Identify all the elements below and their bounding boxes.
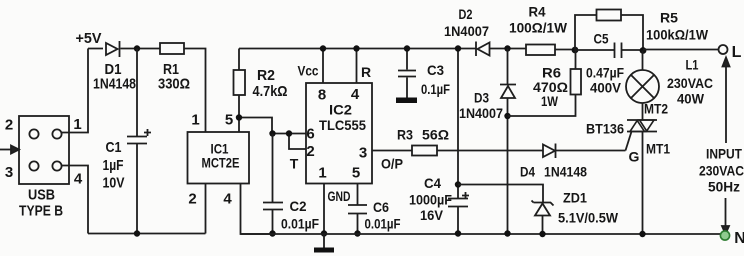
wire IC1 pin4 to ground rail [241,184,273,235]
node C6 ground [354,230,360,236]
triac BT136 [627,120,657,132]
svg-text:4: 4 [351,86,360,103]
svg-text:10V: 10V [103,175,125,192]
svg-text:C3: C3 [427,62,444,78]
wire left ground rail [88,233,206,235]
svg-text:5: 5 [225,112,233,129]
wire R2 bottom to IC1 pin5 and pins 6-2 [239,95,272,134]
svg-text:BT136: BT136 [586,121,624,137]
svg-text:C6: C6 [373,199,389,215]
svg-text:D2: D2 [459,6,473,22]
svg-text:100Ω/1W: 100Ω/1W [509,20,568,36]
svg-text:C5: C5 [594,31,609,47]
wire USB pin4 to left ground rail [62,166,88,234]
wire to L terminal [643,49,719,51]
capacitor C3 [398,49,416,98]
svg-text:MCT2E: MCT2E [202,155,240,171]
wire to 555 pin2 [289,134,306,150]
svg-text:230VAC: 230VAC [667,75,713,91]
node pin4 [353,45,359,51]
zener ZD1 [532,201,554,235]
resistor R6 [571,69,582,95]
resistor R2 [234,70,246,95]
terminal N [720,231,729,240]
node C4 ground [455,230,461,236]
wire to 555 pin6 [272,133,306,135]
svg-text:USB: USB [28,187,55,204]
svg-text:+5V: +5V [76,30,102,47]
node pin1 ground [321,230,327,236]
svg-text:330Ω: 330Ω [158,76,190,93]
svg-text:C4: C4 [424,175,441,191]
wire C4 branch [457,49,459,199]
svg-text:G: G [629,149,640,165]
node C2 ground [269,230,275,236]
arrow into USB [0,149,11,151]
svg-text:5: 5 [352,165,360,182]
svg-text:GND: GND [328,188,351,204]
node D1 R1 C1 junction [134,45,140,51]
wire +5V USB rail [88,49,206,133]
wire O/P pin3 [372,150,412,152]
wire right ground rail [241,233,722,235]
diode D1 [106,41,120,57]
USB connector J1 [19,116,69,184]
wire R4 to node [555,49,575,51]
svg-text:1: 1 [73,116,81,133]
svg-text:4: 4 [223,191,232,208]
node C4 rail top [455,45,461,51]
diode D3 [500,85,516,99]
wire lamp to triac MT2 [642,103,644,120]
svg-text:16V: 16V [420,207,444,223]
svg-text:8: 8 [318,87,326,104]
capacitor C5 [575,43,643,59]
wire R6 top [575,50,577,69]
wire 555 pin1 to ground [323,184,325,234]
svg-text:C1: C1 [106,139,122,156]
svg-text:L1: L1 [686,57,699,73]
capacitor C1 [127,49,151,234]
svg-text:TYPE B: TYPE B [19,203,63,220]
capacitor C2 [263,134,283,234]
diode D4 [543,144,556,159]
node C3 rail [404,45,410,51]
svg-text:5.1V/0.5W: 5.1V/0.5W [558,210,619,226]
node MT1 ground [639,231,645,237]
wire triac MT1 to ground [642,132,644,235]
svg-text:1N4148: 1N4148 [93,76,136,93]
node C2 junction [269,130,275,136]
ground symbol main [323,234,325,249]
wire Vcc rail 555 [239,48,476,50]
svg-text:D4: D4 [520,164,535,180]
svg-text:L: L [732,44,742,61]
svg-text:MT2: MT2 [644,101,668,117]
node pin8 [320,45,326,51]
wire D4 to gate [556,150,626,152]
capacitor C6 [348,184,367,234]
svg-text:1N4007: 1N4007 [459,105,503,121]
timer IC2 TLC555 [306,83,372,184]
svg-text:3: 3 [5,164,13,181]
resistor R3 [412,146,437,156]
arrow N input [725,198,727,226]
node R2 pin5 [236,114,242,120]
svg-text:N: N [734,230,744,247]
lamp L1 [626,70,659,103]
wire USB pin1 to rail [62,49,88,133]
svg-text:R: R [361,64,371,80]
wire R6 bottom to D3 node [508,95,576,117]
svg-text:D3: D3 [474,90,489,106]
svg-text:6: 6 [306,126,314,143]
svg-text:100kΩ/1W: 100kΩ/1W [646,27,709,43]
svg-text:R2: R2 [257,67,275,84]
svg-text:50Hz: 50Hz [708,179,740,195]
svg-text:40W: 40W [677,91,705,107]
svg-text:O/P: O/P [381,156,403,172]
resistor R5 [597,10,622,21]
wire R2 top to Vcc rail [238,49,240,71]
wire IC1 pin2 to ground [205,184,207,234]
svg-text:Vcc: Vcc [298,63,319,79]
wire R5 branch [575,15,643,50]
resistor R1 [160,43,184,54]
node D3 ground [504,230,510,236]
ground symbol C3 [396,98,417,104]
svg-text:2: 2 [188,191,196,208]
diode D2 [476,42,526,57]
wire 555 pin8 [322,49,324,84]
node D2 D3 junction [504,45,510,51]
svg-text:4: 4 [74,171,83,188]
terminal L [719,45,728,54]
svg-text:1W: 1W [541,93,559,109]
svg-text:IC2: IC2 [329,102,352,118]
svg-text:4.7kΩ: 4.7kΩ [253,83,288,100]
node C4 zener tap [455,181,461,187]
svg-text:R5: R5 [660,10,678,26]
svg-text:400V: 400V [590,80,622,96]
svg-text:C2: C2 [290,198,307,214]
wire D3 branch [507,49,509,234]
svg-text:0.01µF: 0.01µF [281,216,319,232]
svg-text:R3: R3 [397,127,413,143]
wire R3 to D4 [437,150,543,152]
resistor R4 [526,45,555,56]
svg-text:MT1: MT1 [646,141,670,157]
svg-text:1: 1 [318,165,326,182]
node pin2 branch [286,130,292,136]
node lamp junction [640,47,647,54]
node ZD1 ground [539,231,545,237]
wire triac gate diagonal [626,132,632,151]
svg-text:1: 1 [191,112,199,129]
svg-text:3: 3 [359,145,367,162]
wire 555 pin4 [356,49,358,84]
capacitor C4 [448,192,469,234]
svg-text:56Ω: 56Ω [422,127,449,143]
node R4 R5 R6 [572,47,579,54]
svg-text:R4: R4 [529,4,546,20]
svg-text:0.47µF: 0.47µF [586,65,624,81]
svg-text:2: 2 [5,117,13,134]
svg-text:T: T [290,156,299,172]
svg-text:1000µF: 1000µF [409,192,452,208]
svg-text:2: 2 [306,143,314,160]
svg-text:1N4007: 1N4007 [444,23,489,39]
svg-text:0.1µF: 0.1µF [421,81,450,97]
svg-text:1µF: 1µF [103,157,124,174]
svg-text:0.01µF: 0.01µF [365,216,401,232]
wire zener tap [458,185,543,203]
svg-text:TLC555: TLC555 [319,117,366,133]
optocoupler IC1 MCT2E [188,132,250,184]
svg-text:1N4148: 1N4148 [544,164,587,180]
arrow L input [725,66,727,143]
svg-text:230VAC: 230VAC [699,163,744,179]
wire lamp top [642,51,644,71]
node C1 ground [134,230,140,236]
svg-text:ZD1: ZD1 [563,190,587,206]
svg-text:INPUT: INPUT [706,146,742,162]
node D3 gate junction [504,113,510,119]
